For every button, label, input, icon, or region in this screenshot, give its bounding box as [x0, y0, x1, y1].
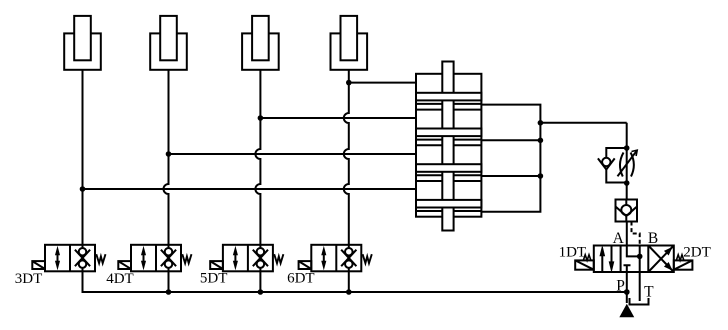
- svg-text:P: P: [616, 277, 625, 294]
- svg-text:4DT: 4DT: [106, 271, 134, 287]
- svg-text:B: B: [648, 230, 658, 247]
- svg-text:5DT: 5DT: [200, 271, 228, 287]
- svg-text:2DT: 2DT: [683, 244, 711, 260]
- svg-text:1DT: 1DT: [559, 244, 587, 260]
- svg-text:3DT: 3DT: [15, 271, 43, 287]
- svg-text:T: T: [644, 284, 654, 301]
- svg-text:6DT: 6DT: [287, 271, 315, 287]
- svg-text:A: A: [613, 230, 625, 247]
